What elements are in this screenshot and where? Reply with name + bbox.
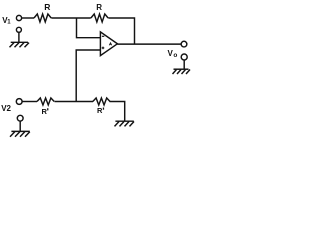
svg-text:R: R xyxy=(42,107,48,116)
wire xyxy=(22,17,34,19)
wire xyxy=(77,18,101,38)
wire xyxy=(51,17,91,19)
label A (op-amp gain) xyxy=(109,43,112,46)
wire xyxy=(76,50,100,102)
ground xyxy=(173,69,191,74)
wire xyxy=(22,101,37,103)
ground xyxy=(10,131,30,136)
wire xyxy=(117,43,181,45)
wire xyxy=(19,121,21,131)
node Vo ground terminal xyxy=(181,54,187,60)
node V1 input terminal xyxy=(16,15,21,20)
op-amp U1 xyxy=(100,32,117,56)
resistor R2 xyxy=(91,14,108,22)
svg-text:R: R xyxy=(44,2,50,12)
svg-text:R: R xyxy=(97,106,103,115)
ground xyxy=(10,42,30,47)
resistor R2prime xyxy=(93,98,110,105)
wire xyxy=(18,32,20,42)
wire xyxy=(110,102,125,122)
wire xyxy=(183,60,185,69)
ground xyxy=(115,121,135,126)
node V2 input terminal xyxy=(16,99,22,105)
wire xyxy=(55,101,94,103)
wire xyxy=(108,18,134,44)
op-amp minus sign xyxy=(102,35,104,37)
node Vo output terminal xyxy=(181,41,187,47)
resistor R1prime xyxy=(37,98,54,105)
svg-text:o: o xyxy=(173,52,177,59)
resistor R1 xyxy=(34,14,51,22)
node V1 ground terminal xyxy=(16,27,21,32)
node V2 ground terminal xyxy=(17,115,23,121)
svg-text:R: R xyxy=(96,3,102,12)
svg-text:V2: V2 xyxy=(1,104,11,113)
op-amp plus sign xyxy=(102,47,105,50)
